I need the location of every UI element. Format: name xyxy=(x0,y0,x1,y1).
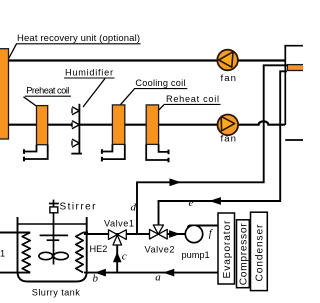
label: Heat recovery unit (optional) xyxy=(3,33,141,70)
svg-text:Slurry tank: Slurry tank xyxy=(32,288,80,298)
stirrer propeller xyxy=(39,252,53,259)
pump1 xyxy=(182,225,219,260)
fan 2 (return) xyxy=(218,115,239,145)
valve2 (3-way) xyxy=(145,225,175,255)
liquid level mark xyxy=(40,234,69,236)
svg-text:c: c xyxy=(122,251,127,263)
pipe e: from room coil down, left to valve2 riser xyxy=(159,71,288,225)
HE1 inlet pipe (left edge, top) xyxy=(0,232,30,234)
valve1 (3-way) xyxy=(104,219,134,246)
condenser box xyxy=(251,212,268,290)
main slurry line: HE2 to valve1 to valve2 to pump xyxy=(84,233,186,235)
wire: top supply duct xyxy=(9,59,286,61)
svg-text:fan: fan xyxy=(221,134,237,145)
label: Cooling coil xyxy=(119,78,187,106)
svg-text:Evaporator: Evaporator xyxy=(222,220,233,279)
arrow valve2 to pump xyxy=(170,231,179,237)
label: Preheat coil xyxy=(24,86,71,107)
stirrer xyxy=(49,200,96,265)
heat recovery unit bar xyxy=(0,49,9,139)
reheat coil xyxy=(146,105,168,162)
svg-text:Cooling coil: Cooling coil xyxy=(135,78,185,88)
compressor box xyxy=(237,220,250,288)
svg-text:1: 1 xyxy=(0,249,5,259)
pipe d: riser, horizontal run, up to room coil xyxy=(131,65,288,234)
preheat coil xyxy=(24,106,48,162)
svg-text:d: d xyxy=(131,202,137,214)
room ceiling coil xyxy=(287,65,304,71)
tank rim line xyxy=(18,223,87,225)
svg-text:Condenser: Condenser xyxy=(254,224,265,282)
heat exchanger HE1 coil xyxy=(22,233,30,273)
humidifier xyxy=(71,104,82,154)
slurry tank xyxy=(18,217,87,282)
conditioned room box xyxy=(285,46,303,140)
HE2 top connector to main line xyxy=(83,232,88,234)
svg-text:pump1: pump1 xyxy=(182,250,210,260)
svg-text:Valve2: Valve2 xyxy=(145,245,175,255)
svg-text:b: b xyxy=(93,273,99,285)
cooling coil xyxy=(102,105,125,161)
label: Reheat coil xyxy=(157,94,220,112)
svg-text:Stirrer: Stirrer xyxy=(60,201,97,212)
svg-text:Compressor: Compressor xyxy=(239,223,250,286)
svg-text:fan: fan xyxy=(221,73,237,84)
bottom return line a/b: evaporator to tank xyxy=(84,269,218,284)
svg-text:Reheat coil: Reheat coil xyxy=(166,94,219,104)
svg-text:Valve1: Valve1 xyxy=(104,219,134,229)
svg-text:a: a xyxy=(155,271,161,283)
evaporator box xyxy=(218,213,235,284)
fan 1 (supply) xyxy=(217,50,238,84)
wire: main duct line with hop over d-pipe xyxy=(9,121,286,124)
svg-text:e: e xyxy=(189,197,194,209)
label: Humidifier xyxy=(64,68,115,107)
heat exchanger HE2 coil xyxy=(76,233,83,273)
svg-text:Humidifier: Humidifier xyxy=(65,68,113,78)
pipe c: valve1 down to bottom line, with up arrow xyxy=(114,244,127,273)
svg-text:HE2: HE2 xyxy=(90,244,108,254)
svg-text:Preheat coil: Preheat coil xyxy=(26,86,69,96)
svg-text:Heat recovery unit (optional): Heat recovery unit (optional) xyxy=(17,33,140,44)
HE1 outlet pipe (left edge, bottom) xyxy=(0,272,30,274)
